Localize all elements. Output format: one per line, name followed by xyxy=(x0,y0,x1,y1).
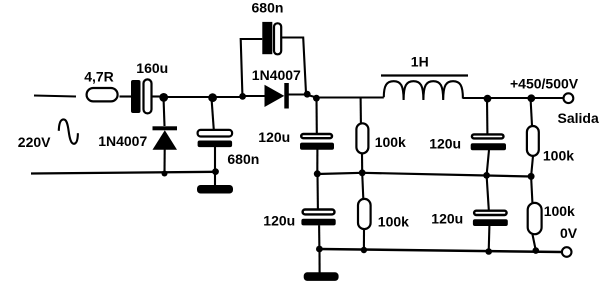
svg-text:680n: 680n xyxy=(252,0,284,16)
svg-text:120u: 120u xyxy=(263,213,295,229)
svg-text:220V: 220V xyxy=(18,134,51,150)
svg-text:120u: 120u xyxy=(258,129,290,145)
svg-text:4,7R: 4,7R xyxy=(84,69,114,85)
svg-text:100k: 100k xyxy=(544,203,575,219)
svg-text:1N4007: 1N4007 xyxy=(98,133,147,149)
svg-text:120u: 120u xyxy=(429,135,461,151)
svg-text:100k: 100k xyxy=(543,148,574,164)
svg-text:100k: 100k xyxy=(375,134,406,150)
svg-text:1H: 1H xyxy=(411,54,429,70)
svg-text:120u: 120u xyxy=(431,210,463,226)
svg-text:100k: 100k xyxy=(378,214,409,230)
svg-text:1N4007: 1N4007 xyxy=(252,67,301,83)
svg-text:+450/500V: +450/500V xyxy=(510,76,579,92)
svg-text:Salida: Salida xyxy=(558,110,599,126)
svg-text:160u: 160u xyxy=(136,60,168,76)
svg-text:680n: 680n xyxy=(227,151,259,167)
svg-text:0V: 0V xyxy=(560,225,578,241)
